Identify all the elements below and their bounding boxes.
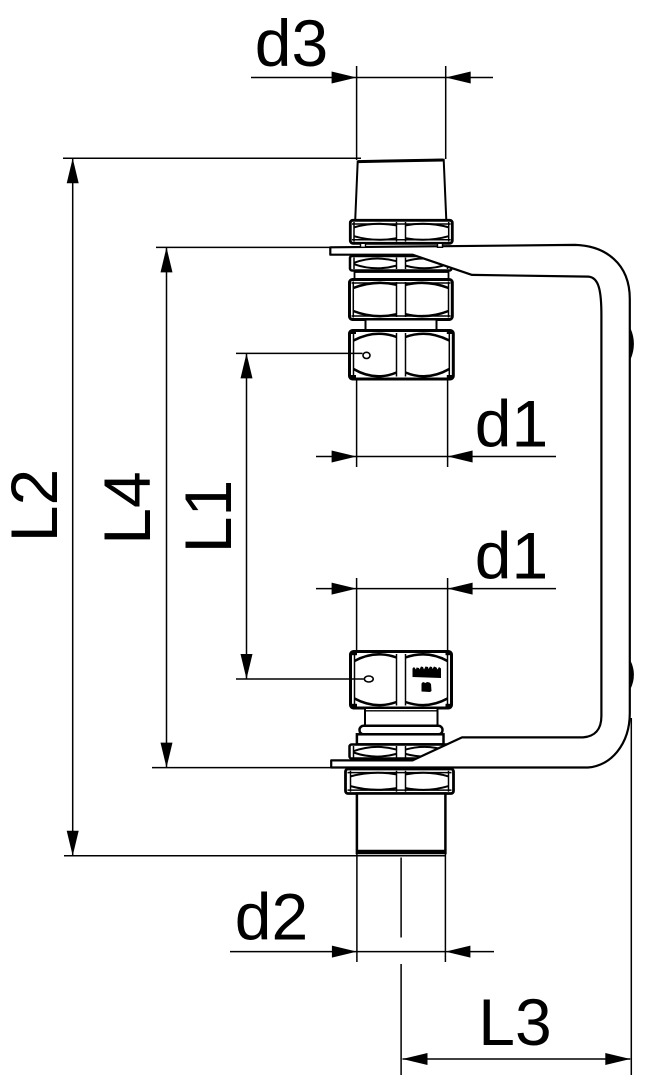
svg-text:L3: L3: [478, 985, 551, 1059]
svg-text:d1: d1: [475, 519, 548, 593]
svg-text:L2: L2: [0, 469, 71, 542]
svg-text:d1: d1: [475, 387, 548, 461]
svg-text:d2: d2: [235, 880, 308, 954]
svg-text:d3: d3: [255, 6, 328, 80]
svg-text:L1: L1: [171, 480, 245, 553]
svg-text:L4: L4: [90, 471, 164, 544]
